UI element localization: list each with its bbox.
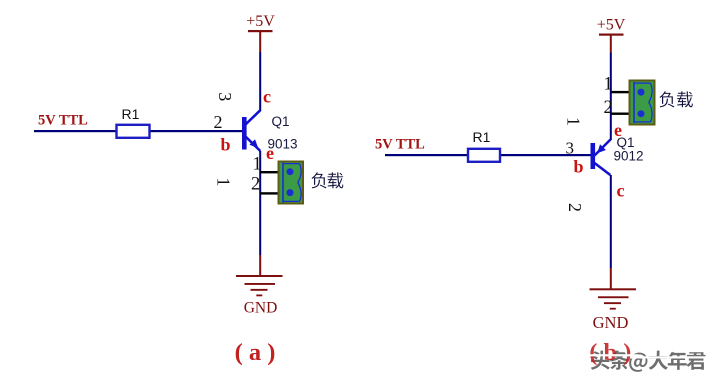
svg-text:9012: 9012 [614,149,644,164]
svg-text:2: 2 [565,203,585,212]
svg-text:3: 3 [566,139,575,158]
svg-text:( b ): ( b ) [589,339,631,366]
svg-text:+5V: +5V [246,13,275,30]
svg-text:9013: 9013 [268,137,298,152]
svg-text:5V TTL: 5V TTL [38,113,88,129]
svg-text:b: b [221,135,231,155]
svg-text:3: 3 [215,92,235,101]
svg-text:1: 1 [564,117,584,126]
svg-text:c: c [617,181,625,201]
svg-text:c: c [263,87,271,107]
svg-text:GND: GND [244,300,278,317]
svg-text:2: 2 [214,112,223,132]
svg-text:GND: GND [593,313,629,332]
svg-text:b: b [574,157,584,177]
svg-text:Q1: Q1 [272,114,290,129]
svg-text:2: 2 [251,175,260,195]
svg-text:( a ): ( a ) [235,339,276,366]
svg-text:2: 2 [604,98,613,118]
svg-text:+5V: +5V [597,17,626,34]
svg-text:1: 1 [604,75,613,95]
svg-text:R1: R1 [122,106,140,122]
svg-text:1: 1 [214,178,234,187]
svg-text:5V TTL: 5V TTL [375,137,425,153]
svg-text:R1: R1 [473,129,491,145]
svg-text:1: 1 [253,155,262,175]
